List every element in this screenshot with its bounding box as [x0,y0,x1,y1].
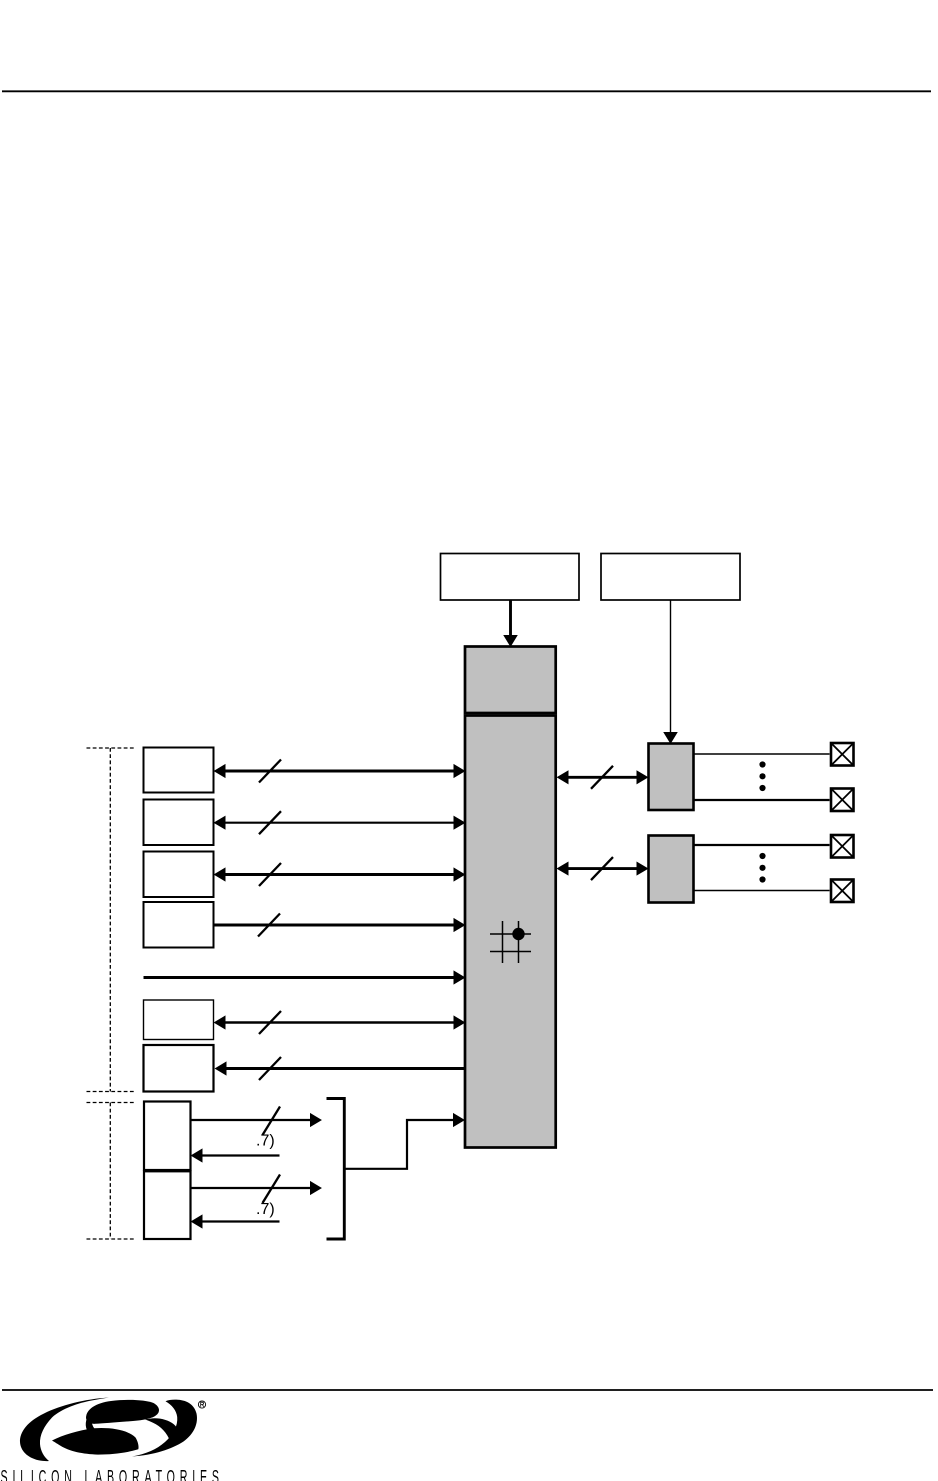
bus arrow 6 (bidirectional, to peripheral box 5) [215,1016,465,1028]
wire: P1 cell to pad P1.0 [694,844,830,846]
pad P1.0 (crossed square) [831,835,854,858]
bus width slash 1 [259,760,281,783]
ellipsis dots (P1 pads) [759,853,765,883]
arrow: P0 latch out [191,1114,322,1126]
ellipsis dots (P0 pads) [759,761,765,791]
register box XBR (empty label) [441,554,580,601]
P0 I/O cells block [649,744,694,811]
pad P0.7 (crossed square) [831,789,854,812]
bus arrow 3 (bidirectional, to peripheral box 3) [215,868,465,880]
peripheral box 5 (SYSCLK, empty label) [144,1000,214,1040]
collector bracket [327,1099,345,1240]
register box PnMDOUT (empty label) [601,554,740,601]
page bottom rule [2,1389,933,1391]
crossbar matrix symbol [490,921,531,963]
bus arrow R1 (bidirectional, crossbar to P0 cells) [558,771,648,783]
registered trademark symbol [198,1401,205,1408]
port latch box P0 (empty label) [144,1102,191,1171]
arrow: XBR registers to priority decoder [504,600,517,646]
svg-text:SILICON LABORATORIES: SILICON LABORATORIES [1,1467,219,1481]
arrow: P1 latch out [191,1182,322,1194]
bus width slash 7 [259,1057,281,1080]
bus width slash 3 [259,863,281,886]
wire: P0 cell to pad P0.7 [694,799,830,801]
bus width slash R1 [591,766,613,789]
bus arrow 1 (bidirectional, to peripheral box 1) [215,765,465,777]
P1 I/O cells block [649,836,694,903]
bus width slash 4 [258,914,280,937]
port latch box P1 (empty label) [144,1171,191,1239]
bus arrow R2 (bidirectional, crossbar to P1 cells) [558,862,648,874]
pad P0.0 (crossed square) [831,743,854,766]
peripheral box 6 (PCA/T0-T2, empty label) [144,1045,214,1092]
svg-text:.7): .7) [256,1133,275,1150]
silicon labs logo: bottom horn [52,1428,139,1455]
silicon laboratories wordmark [1,1467,219,1481]
svg-text:.7): .7) [256,1201,275,1218]
silicon labs logo: top blob [86,1400,159,1424]
bus arrow 4 (peripheral box 4 to crossbar) [214,919,465,931]
arrow: PnMDOUT registers to port cells [664,600,677,743]
wire: bracket to crossbar [344,1114,464,1169]
bus arrow 2 (bidirectional, to peripheral box 2) [215,817,465,829]
peripheral box 1 (UART, empty label) [144,748,214,793]
silicon labs logo: left crescent [20,1398,109,1462]
bus width slash (P1 latch) [263,1175,281,1204]
silicon labs logo: s-middle descender [86,1413,107,1441]
bus arrow 7 (crossbar to peripheral box 6) [216,1062,466,1074]
pad P1.7 (crossed square) [831,880,854,903]
bus width slash (P0 latch) [263,1107,281,1136]
dashed extent bracket 1 [87,748,135,1092]
peripheral box 4 (SPI, empty label) [144,902,214,948]
wire 5 (sysclk line to crossbar) [144,971,465,983]
digital crossbar block [465,716,556,1148]
bus width slash R2 [591,857,613,880]
silicon labs logo: s-middle connector [145,1418,181,1441]
priority decoder block [465,647,556,714]
bus width slash 6 [259,1011,281,1034]
peripheral box 2 (SMBus, empty label) [144,800,214,846]
peripheral box 3 (CP0/CP1, empty label) [144,852,214,898]
arrow: P1 latch in [192,1215,280,1227]
dashed extent bracket 2 [87,1103,135,1240]
page top rule [2,90,931,92]
arrow: P0 latch in [192,1149,280,1161]
silicon labs logo: right crescent [132,1400,197,1457]
wire: P1 cell to pad P1.7 [694,890,830,892]
bus width slash 2 [259,811,281,834]
wire: P0 cell to pad P0.0 [694,753,830,755]
